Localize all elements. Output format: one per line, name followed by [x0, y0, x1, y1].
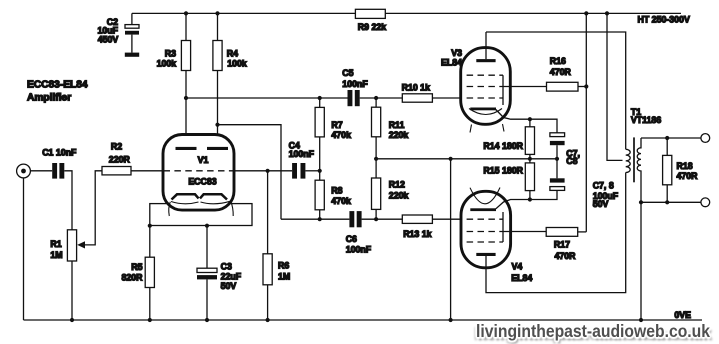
wire ground rail	[24, 319, 703, 321]
svg-text:100k: 100k	[157, 58, 177, 68]
V1 anode bars	[176, 147, 229, 150]
T1 secondary	[637, 138, 701, 320]
V4 anode	[476, 173, 625, 293]
svg-text:R3: R3	[165, 48, 176, 58]
node rail-R16 line	[584, 11, 588, 15]
resistor R6	[263, 171, 290, 320]
resistor R3	[157, 13, 191, 146]
resistor R17	[546, 228, 586, 261]
V1 grid dashed	[164, 170, 234, 172]
node rail-T1 tap	[605, 11, 609, 15]
capacitor C2	[97, 13, 139, 56]
resistor R15	[483, 154, 534, 199]
resistor R7	[315, 98, 351, 171]
wire HT top rail	[132, 12, 681, 14]
wire V3 anode to T1	[486, 32, 626, 149]
V4 heater	[470, 188, 500, 204]
node C7-C8 mid	[555, 157, 559, 161]
svg-text:R4: R4	[227, 48, 238, 58]
svg-text:R5: R5	[131, 262, 142, 272]
V3 cathode	[470, 108, 530, 120]
cathode box V1	[150, 204, 252, 226]
node box-R5	[148, 224, 152, 228]
capacitor C6	[346, 211, 403, 255]
node sec-bottom-gnd	[639, 200, 643, 204]
svg-text:100nF: 100nF	[342, 79, 368, 89]
svg-text:220R: 220R	[109, 155, 131, 165]
svg-text:V1: V1	[198, 155, 209, 165]
node V1b anode	[215, 123, 219, 127]
svg-text:R13 1k: R13 1k	[403, 229, 431, 239]
node R15 bottom	[528, 197, 532, 201]
resistor R8	[315, 171, 351, 219]
node gnd-C3	[205, 318, 209, 322]
resistor R4	[213, 13, 247, 146]
resistor R9	[355, 9, 386, 32]
svg-text:100k: 100k	[227, 58, 247, 68]
title	[27, 79, 88, 103]
potentiometer R1	[50, 171, 102, 320]
svg-text:50V: 50V	[221, 281, 237, 291]
wire midline to ground rail	[450, 159, 452, 320]
node rail-R3	[184, 11, 188, 15]
resistor R12	[372, 159, 409, 219]
input jack	[17, 164, 31, 320]
node midline-ground branch	[449, 157, 453, 161]
svg-text:R14 180R: R14 180R	[483, 141, 523, 151]
svg-text:100nF: 100nF	[289, 149, 315, 159]
resistor R5	[121, 226, 154, 320]
label HT 250-300V	[638, 15, 690, 25]
node C5-R11	[374, 96, 378, 100]
svg-text:VT1186: VT1186	[631, 115, 661, 125]
svg-text:HT 250-300V: HT 250-300V	[638, 15, 690, 25]
watermark	[476, 321, 710, 342]
node R11-R12	[374, 157, 378, 161]
svg-text:0VE: 0VE	[674, 310, 691, 320]
node gnd-R5	[148, 318, 152, 322]
svg-text:50V: 50V	[593, 199, 609, 209]
resistor R18	[663, 138, 699, 202]
node C6-R12	[374, 217, 378, 221]
node rail-R4	[215, 11, 219, 15]
svg-text:V4: V4	[512, 262, 523, 272]
svg-text:R8: R8	[331, 186, 342, 196]
V1 cathodes	[172, 194, 228, 199]
node R14 top	[528, 117, 532, 121]
svg-text:R6: R6	[278, 260, 289, 270]
svg-text:C3: C3	[221, 261, 232, 271]
T1 primary	[626, 149, 631, 172]
svg-text:C7, 8: C7, 8	[593, 181, 614, 191]
wire phase-splitter mid line	[376, 158, 530, 160]
triode V1	[163, 135, 234, 211]
wire V1 grid line right	[234, 170, 292, 172]
output terminal -	[701, 198, 710, 207]
capacitor C5	[342, 68, 402, 106]
T1 core	[633, 137, 635, 182]
node V1a-anode/C5	[184, 96, 188, 100]
svg-text:820R: 820R	[121, 273, 143, 283]
svg-text:R11: R11	[389, 120, 405, 130]
capacitor C3	[197, 226, 242, 320]
wire V1b anode branch	[218, 125, 282, 220]
node chain-R8	[318, 217, 322, 221]
node R16-HT	[584, 84, 588, 88]
svg-text:R16: R16	[550, 56, 566, 66]
pentode V4	[461, 191, 532, 283]
svg-text:R9 22k: R9 22k	[358, 22, 386, 32]
wire HT screens feed	[585, 13, 587, 232]
resistor R2	[102, 142, 163, 175]
svg-text:470R: 470R	[677, 171, 699, 181]
node gnd-secondary	[639, 318, 643, 322]
svg-text:C1 10nF: C1 10nF	[42, 148, 77, 158]
svg-text:ECC83-EL84: ECC83-EL84	[27, 79, 88, 90]
resistor R14	[483, 119, 534, 154]
resistor R10	[402, 82, 461, 102]
node C4-R7-R8	[318, 169, 322, 173]
V3 grids	[467, 75, 547, 105]
svg-text:100nF: 100nF	[346, 245, 372, 255]
resistor R11	[372, 98, 409, 159]
pentode V3	[441, 48, 510, 125]
svg-text:R2: R2	[111, 142, 122, 152]
svg-text:R10 1k: R10 1k	[402, 82, 430, 92]
svg-text:R17: R17	[554, 240, 570, 250]
capacitor C1	[42, 148, 77, 230]
svg-text:1M: 1M	[278, 271, 290, 281]
node sec-R18 top	[665, 136, 669, 140]
label C7,8 electrolytic	[593, 181, 619, 209]
node box-C3	[205, 224, 209, 228]
svg-text:22uF: 22uF	[221, 271, 242, 281]
capacitor C7	[530, 119, 565, 178]
svg-text:470R: 470R	[555, 251, 577, 261]
svg-text:R15 180R: R15 180R	[483, 166, 523, 176]
node sec-R18 bottom	[665, 200, 669, 204]
svg-text:ECC83: ECC83	[188, 176, 216, 186]
resistor R16	[547, 56, 587, 91]
V3 anode	[476, 32, 495, 62]
svg-text:EL84: EL84	[441, 58, 462, 68]
wire V1 grid line left	[30, 170, 52, 172]
V3 heater	[469, 109, 504, 133]
svg-text:470R: 470R	[550, 67, 572, 77]
V1 heaters	[169, 201, 233, 216]
node R7 top	[318, 96, 322, 100]
svg-text:EL84: EL84	[511, 273, 532, 283]
svg-text:470k: 470k	[331, 130, 351, 140]
transformer T1	[607, 13, 661, 160]
capacitor C8	[530, 148, 580, 199]
svg-text:Amplifier: Amplifier	[27, 92, 71, 103]
node R14-R15 mid	[528, 157, 532, 161]
svg-text:C5: C5	[342, 68, 353, 78]
svg-text:R7: R7	[331, 120, 342, 130]
svg-text:R18: R18	[677, 161, 693, 171]
svg-text:1M: 1M	[50, 250, 62, 260]
wire V1b anode chain to C6	[281, 218, 349, 220]
V4 cathode	[470, 200, 530, 212]
node gnd-R6	[266, 318, 270, 322]
node gnd-R1	[70, 318, 74, 322]
svg-text:470k: 470k	[331, 196, 351, 206]
svg-text:R12: R12	[389, 180, 405, 190]
svg-text:450V: 450V	[98, 35, 119, 45]
node grid-R6	[266, 169, 270, 173]
svg-text:C6: C6	[346, 234, 357, 244]
svg-text:C8: C8	[566, 156, 577, 166]
svg-text:220k: 220k	[389, 191, 409, 201]
capacitor C4	[289, 141, 320, 179]
V4 grids	[467, 212, 547, 242]
wire V1a anode to C5 line	[186, 97, 348, 99]
label 0VE	[674, 310, 691, 320]
svg-text:R1: R1	[50, 239, 61, 249]
node gnd-midline	[449, 318, 453, 322]
svg-text:220k: 220k	[389, 130, 409, 140]
resistor R13	[402, 215, 461, 239]
output terminal +	[701, 134, 710, 143]
